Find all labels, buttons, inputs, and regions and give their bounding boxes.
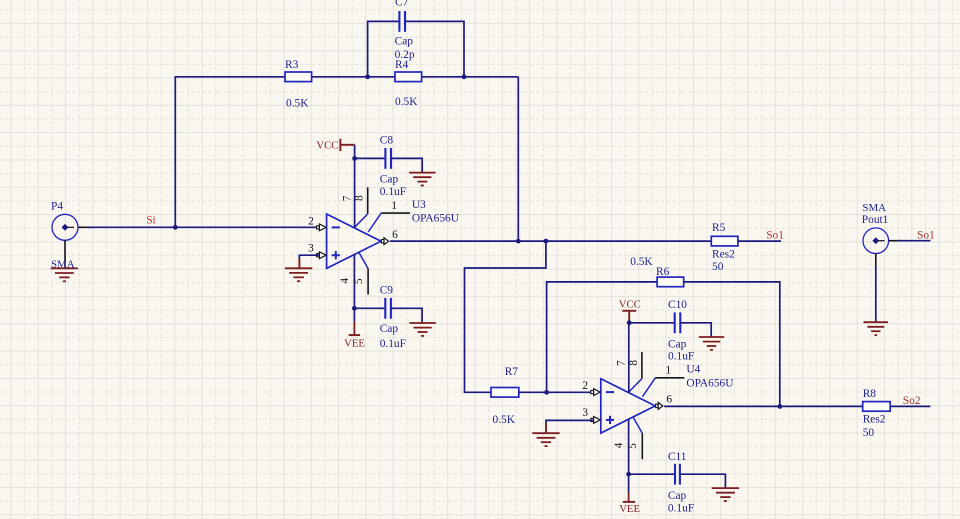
svg-text:0.1uF: 0.1uF: [380, 338, 406, 350]
junction output / R7 branch: [544, 239, 549, 244]
svg-text:C9: C9: [380, 285, 394, 297]
svg-text:R7: R7: [505, 366, 519, 378]
svg-text:So2: So2: [903, 395, 921, 407]
wire rail to C11: [629, 473, 675, 475]
resistor R5: [711, 236, 738, 246]
wire Pout1 net So1: [898, 240, 930, 242]
svg-text:0.5K: 0.5K: [630, 256, 653, 268]
resistor R7: [491, 388, 519, 398]
svg-text:0.5K: 0.5K: [286, 98, 309, 110]
svg-text:Cap: Cap: [380, 173, 399, 185]
wire rail to C9: [354, 307, 385, 309]
svg-text:P4: P4: [51, 201, 63, 213]
U4 pin 5 line: [633, 418, 642, 460]
power port VEE (U4): [623, 474, 635, 502]
svg-text:7: 7: [341, 195, 353, 201]
wire R7 to U4 pin 2: [519, 391, 594, 393]
op-amp U3 body: [327, 214, 381, 268]
U3 output arrow pin 6: [381, 238, 388, 245]
ground under P4: [51, 268, 78, 281]
junction VCC rail / pin 7: [352, 156, 357, 161]
junction C7 right / R4: [462, 74, 467, 79]
capacitor C11: [675, 464, 680, 485]
svg-text:So1: So1: [917, 230, 935, 242]
svg-text:50: 50: [863, 427, 875, 439]
wire C11 to ground: [680, 474, 726, 488]
wire C9 to ground: [391, 308, 422, 323]
wire rail to C8: [355, 157, 386, 159]
wire feedback down to output: [517, 77, 519, 241]
ground near C8: [409, 173, 436, 186]
svg-text:C10: C10: [668, 299, 687, 311]
U4 pin 3 arrow: [591, 417, 600, 424]
svg-text:1: 1: [666, 365, 672, 377]
U3 pin 8 line: [355, 187, 368, 227]
wire VCC to rail: [354, 145, 356, 159]
junction R3-R4 / C7 left: [365, 74, 370, 79]
ground stub U3 pin 3: [298, 259, 300, 268]
svg-text:0.5K: 0.5K: [493, 414, 516, 426]
U4 pin 1 line: [642, 378, 684, 397]
svg-text:C7: C7: [395, 0, 409, 9]
resistor R8: [863, 402, 891, 412]
svg-text:SMA: SMA: [862, 202, 886, 214]
svg-text:50: 50: [712, 261, 724, 273]
U3 pin 1 line: [368, 213, 410, 232]
wire output down to R7: [465, 241, 546, 392]
svg-text:VEE: VEE: [344, 338, 365, 350]
resistor R3: [285, 72, 312, 82]
svg-text:U4: U4: [686, 364, 700, 376]
ground near C10: [699, 337, 724, 350]
svg-text:C8: C8: [380, 134, 394, 146]
svg-text:0.1uF: 0.1uF: [668, 503, 694, 515]
svg-text:1: 1: [391, 200, 397, 212]
U4 pin 7 line: [628, 323, 630, 393]
svg-text:Si: Si: [146, 214, 156, 226]
wire up to R3: [175, 77, 285, 228]
wire net Si to U3 pin 2: [88, 226, 319, 228]
wire R6 to U4 output: [684, 282, 780, 407]
capacitor C10: [675, 312, 681, 333]
power port VCC (U3): [340, 139, 354, 151]
svg-text:Res2: Res2: [863, 413, 886, 425]
svg-text:6: 6: [392, 229, 398, 241]
wire U3 pin 3 to ground: [299, 255, 318, 260]
capacitor C7: [399, 11, 405, 32]
wire R4 to feedback corner: [422, 76, 519, 78]
wire C7 left leg: [368, 21, 400, 76]
svg-text:Cap: Cap: [395, 36, 414, 48]
svg-text:5: 5: [353, 278, 365, 284]
svg-text:8: 8: [354, 195, 366, 201]
svg-text:VEE: VEE: [619, 503, 640, 515]
ground near C9: [409, 323, 436, 336]
U4 pin 2 arrow: [591, 389, 600, 396]
svg-text:7: 7: [616, 360, 628, 366]
wire U4 pin 3 to ground: [546, 420, 594, 424]
svg-text:2: 2: [582, 380, 588, 392]
ground at U3 pin 3: [285, 268, 312, 281]
svg-text:0.5K: 0.5K: [395, 96, 418, 108]
svg-text:VCC: VCC: [619, 299, 641, 311]
U4 plus sign: [606, 416, 614, 424]
U3 minus sign: [332, 226, 340, 228]
svg-text:R8: R8: [863, 388, 877, 400]
wire up to R6: [547, 282, 658, 392]
op-amp U4 body: [601, 379, 655, 433]
wire rail to C10: [629, 322, 675, 324]
svg-text:So1: So1: [766, 229, 784, 241]
capacitor C9: [385, 298, 391, 319]
wire C7 right leg: [405, 21, 464, 76]
U3 pin 2 arrow: [317, 224, 326, 231]
wire C8 to ground: [391, 158, 422, 172]
svg-text:Pout1: Pout1: [862, 214, 889, 226]
connector P4 (SMA): [52, 214, 92, 268]
connector Pout1 (SMA): [863, 228, 902, 254]
U3 pin 5 line: [359, 253, 368, 295]
svg-text:8: 8: [628, 360, 640, 366]
junction feedback / output: [516, 239, 521, 244]
U3 pin 3 arrow: [317, 252, 326, 259]
svg-text:4: 4: [613, 442, 625, 448]
junction R7 / R6 branch: [544, 390, 549, 395]
svg-text:2: 2: [308, 216, 314, 228]
wire R8 to net So2: [890, 405, 930, 407]
capacitor C8: [385, 148, 391, 169]
svg-text:6: 6: [666, 394, 672, 406]
svg-text:3: 3: [582, 407, 588, 419]
svg-text:OPA656U: OPA656U: [686, 377, 733, 389]
svg-text:R5: R5: [712, 222, 726, 234]
svg-text:3: 3: [308, 242, 314, 254]
svg-text:U3: U3: [412, 199, 426, 211]
wire U4 output to R8: [664, 405, 863, 407]
power port VCC (U4): [622, 311, 636, 323]
wire Pout1 to ground: [875, 267, 877, 323]
U4 output arrow pin 6: [656, 402, 663, 409]
svg-text:R6: R6: [656, 266, 670, 278]
Pout1 ground pin: [875, 254, 877, 268]
U3 plus sign: [332, 251, 340, 259]
junction VCC rail / U4 pin 7: [627, 320, 632, 325]
resistor R6: [657, 277, 684, 287]
ground under Pout1: [864, 322, 889, 335]
wire U3 output to R5: [390, 240, 711, 242]
ground near C11: [712, 488, 739, 501]
svg-text:4: 4: [339, 278, 351, 284]
junction C11 rail / VEE: [626, 472, 631, 477]
svg-text:C11: C11: [668, 451, 687, 463]
svg-text:R4: R4: [395, 59, 409, 71]
resistor R4: [395, 72, 422, 82]
svg-text:0.1uF: 0.1uF: [668, 350, 694, 362]
svg-text:Cap: Cap: [380, 323, 399, 335]
ground stub U4 pin 3: [545, 423, 547, 433]
svg-text:Cap: Cap: [668, 339, 687, 351]
svg-text:5: 5: [627, 443, 639, 449]
power port VEE (U3): [349, 308, 360, 335]
U3 pin 4 line: [353, 254, 355, 308]
svg-text:OPA656U: OPA656U: [412, 213, 459, 225]
svg-text:R3: R3: [285, 59, 299, 71]
wire C10 to ground: [680, 323, 711, 337]
U3 pin 7 line: [354, 158, 356, 228]
svg-text:0.1uF: 0.1uF: [380, 186, 406, 198]
U4 pin 4 line: [628, 419, 630, 475]
U4 minus sign: [606, 391, 614, 393]
svg-text:Res2: Res2: [712, 249, 735, 261]
junction Si / R3 branch: [173, 225, 178, 230]
junction C9 rail / VEE: [352, 306, 357, 311]
svg-text:VCC: VCC: [316, 139, 338, 151]
wire R3 to R4: [312, 76, 395, 78]
U4 pin 8 line: [629, 352, 642, 392]
svg-text:Cap: Cap: [668, 490, 687, 502]
junction R6 / output So2: [777, 404, 782, 409]
ground at U4 pin 3: [532, 433, 559, 446]
wire R5 to net So1: [738, 240, 781, 242]
